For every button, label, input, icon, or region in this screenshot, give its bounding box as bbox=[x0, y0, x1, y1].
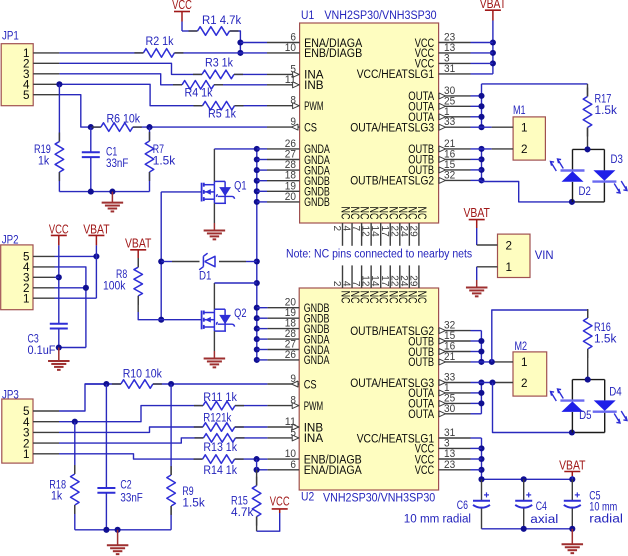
svg-text:NC: NC bbox=[415, 207, 427, 220]
svg-text:M1: M1 bbox=[513, 103, 526, 117]
svg-text:32: 32 bbox=[444, 169, 455, 181]
svg-text:GNDA: GNDA bbox=[304, 353, 330, 367]
svg-text:R13 1k: R13 1k bbox=[203, 442, 237, 454]
svg-text:Q2: Q2 bbox=[234, 306, 247, 320]
svg-text:33nF: 33nF bbox=[120, 493, 142, 505]
svg-text:1k: 1k bbox=[51, 491, 62, 503]
svg-text:R2 1k: R2 1k bbox=[146, 36, 174, 48]
svg-text:R4 1k: R4 1k bbox=[185, 88, 213, 100]
svg-text:VNH2SP30/VNH3SP30: VNH2SP30/VNH3SP30 bbox=[323, 490, 435, 504]
svg-text:R121k: R121k bbox=[203, 413, 231, 425]
svg-text:VIN: VIN bbox=[535, 248, 554, 262]
svg-text:D5: D5 bbox=[579, 408, 592, 422]
svg-text:VCC: VCC bbox=[270, 494, 290, 508]
svg-text:OUTA: OUTA bbox=[408, 407, 434, 421]
svg-text:JP2: JP2 bbox=[2, 235, 19, 247]
svg-text:U2: U2 bbox=[301, 490, 314, 504]
svg-text:VCC/HEATSLG1: VCC/HEATSLG1 bbox=[357, 67, 435, 81]
svg-text:C4: C4 bbox=[536, 501, 548, 513]
svg-text:C6: C6 bbox=[457, 500, 468, 512]
svg-text:R17: R17 bbox=[595, 94, 612, 106]
svg-text:C1: C1 bbox=[106, 147, 117, 159]
svg-text:R11 1k: R11 1k bbox=[203, 392, 237, 404]
svg-text:33: 33 bbox=[444, 116, 455, 128]
svg-text:NC: NC bbox=[415, 291, 427, 304]
svg-text:ENA/DIAGA: ENA/DIAGA bbox=[304, 463, 363, 477]
svg-text:R15: R15 bbox=[231, 496, 248, 508]
svg-text:GNDB: GNDB bbox=[304, 195, 330, 209]
svg-text:OUTA/HEATSLG3: OUTA/HEATSLG3 bbox=[350, 121, 434, 135]
svg-text:Q1: Q1 bbox=[234, 178, 247, 192]
svg-text:R3 1k: R3 1k bbox=[205, 58, 233, 70]
svg-text:VBAT: VBAT bbox=[125, 236, 152, 250]
svg-text:VBAT: VBAT bbox=[464, 206, 491, 220]
svg-text:1.5k: 1.5k bbox=[594, 334, 617, 346]
svg-text:Note: NC pins connected to nea: Note: NC pins connected to nearby nets bbox=[286, 249, 472, 261]
svg-text:C3: C3 bbox=[28, 334, 39, 346]
svg-text:R6 10k: R6 10k bbox=[107, 114, 141, 126]
svg-text:1: 1 bbox=[506, 260, 513, 274]
svg-text:OUTB/HEATSLG2: OUTB/HEATSLG2 bbox=[350, 174, 434, 188]
svg-text:1.5k: 1.5k bbox=[595, 105, 618, 117]
svg-text:PWM: PWM bbox=[304, 99, 323, 113]
svg-text:21: 21 bbox=[444, 351, 455, 363]
svg-text:26: 26 bbox=[285, 349, 296, 361]
svg-text:D2: D2 bbox=[579, 184, 592, 198]
svg-text:1k: 1k bbox=[38, 156, 49, 168]
svg-text:1: 1 bbox=[23, 447, 30, 461]
svg-text:OUTB: OUTB bbox=[408, 355, 434, 369]
svg-text:20: 20 bbox=[285, 191, 296, 203]
svg-text:R16: R16 bbox=[594, 322, 611, 334]
svg-text:33nF: 33nF bbox=[106, 158, 128, 170]
svg-text:31: 31 bbox=[444, 63, 455, 75]
svg-text:JP3: JP3 bbox=[2, 390, 19, 402]
svg-text:2: 2 bbox=[521, 142, 528, 156]
svg-text:1.5k: 1.5k bbox=[153, 156, 176, 168]
svg-text:D4: D4 bbox=[609, 385, 622, 399]
svg-text:INB: INB bbox=[304, 78, 323, 92]
svg-text:VCC: VCC bbox=[415, 463, 434, 477]
svg-text:VCC: VCC bbox=[49, 222, 69, 236]
svg-text:VCC: VCC bbox=[172, 0, 192, 12]
svg-text:10 mm radial: 10 mm radial bbox=[404, 514, 471, 526]
svg-text:M2: M2 bbox=[515, 339, 528, 353]
svg-text:JP1: JP1 bbox=[2, 31, 19, 43]
svg-text:C2: C2 bbox=[120, 480, 131, 492]
svg-text:INA: INA bbox=[304, 431, 324, 445]
svg-text:CS: CS bbox=[304, 120, 317, 134]
svg-text:U1: U1 bbox=[301, 8, 314, 22]
svg-text:R7: R7 bbox=[153, 144, 164, 156]
svg-text:30: 30 bbox=[444, 403, 455, 415]
svg-text:1.5k: 1.5k bbox=[182, 498, 205, 510]
svg-text:axial: axial bbox=[530, 514, 558, 526]
svg-text:29: 29 bbox=[407, 226, 419, 237]
svg-text:PWM: PWM bbox=[304, 399, 323, 413]
svg-text:VBAT: VBAT bbox=[83, 222, 110, 236]
svg-text:4.7k: 4.7k bbox=[231, 507, 254, 519]
svg-text:R14 1k: R14 1k bbox=[203, 465, 237, 477]
svg-text:R8: R8 bbox=[116, 269, 127, 281]
svg-text:R9: R9 bbox=[182, 486, 193, 498]
svg-text:10 mm: 10 mm bbox=[589, 502, 617, 514]
svg-text:10: 10 bbox=[285, 42, 296, 54]
svg-text:R5 1k: R5 1k bbox=[208, 109, 236, 121]
svg-text:ENB/DIAGB: ENB/DIAGB bbox=[304, 46, 362, 60]
svg-text:1: 1 bbox=[521, 355, 528, 369]
svg-text:5: 5 bbox=[23, 88, 30, 102]
svg-text:VNH2SP30/VNH3SP30: VNH2SP30/VNH3SP30 bbox=[324, 8, 436, 22]
svg-text:R19: R19 bbox=[34, 144, 51, 156]
svg-text:29: 29 bbox=[407, 275, 419, 286]
svg-text:1: 1 bbox=[23, 291, 30, 305]
svg-text:CS: CS bbox=[304, 377, 317, 391]
svg-text:2: 2 bbox=[521, 376, 528, 390]
svg-text:1: 1 bbox=[521, 121, 528, 135]
svg-text:R10 10k: R10 10k bbox=[123, 369, 162, 381]
svg-text:VBAT: VBAT bbox=[559, 458, 586, 472]
svg-text:6: 6 bbox=[290, 459, 296, 471]
svg-text:23: 23 bbox=[444, 459, 455, 471]
svg-text:VBAT: VBAT bbox=[480, 0, 507, 11]
svg-text:100k: 100k bbox=[103, 281, 126, 293]
svg-text:D1: D1 bbox=[199, 269, 212, 283]
svg-text:0.1uF: 0.1uF bbox=[28, 345, 56, 357]
svg-text:D3: D3 bbox=[611, 152, 624, 166]
svg-text:2: 2 bbox=[506, 238, 513, 252]
svg-text:R1 4.7k: R1 4.7k bbox=[202, 15, 241, 27]
svg-text:radial: radial bbox=[589, 514, 623, 526]
